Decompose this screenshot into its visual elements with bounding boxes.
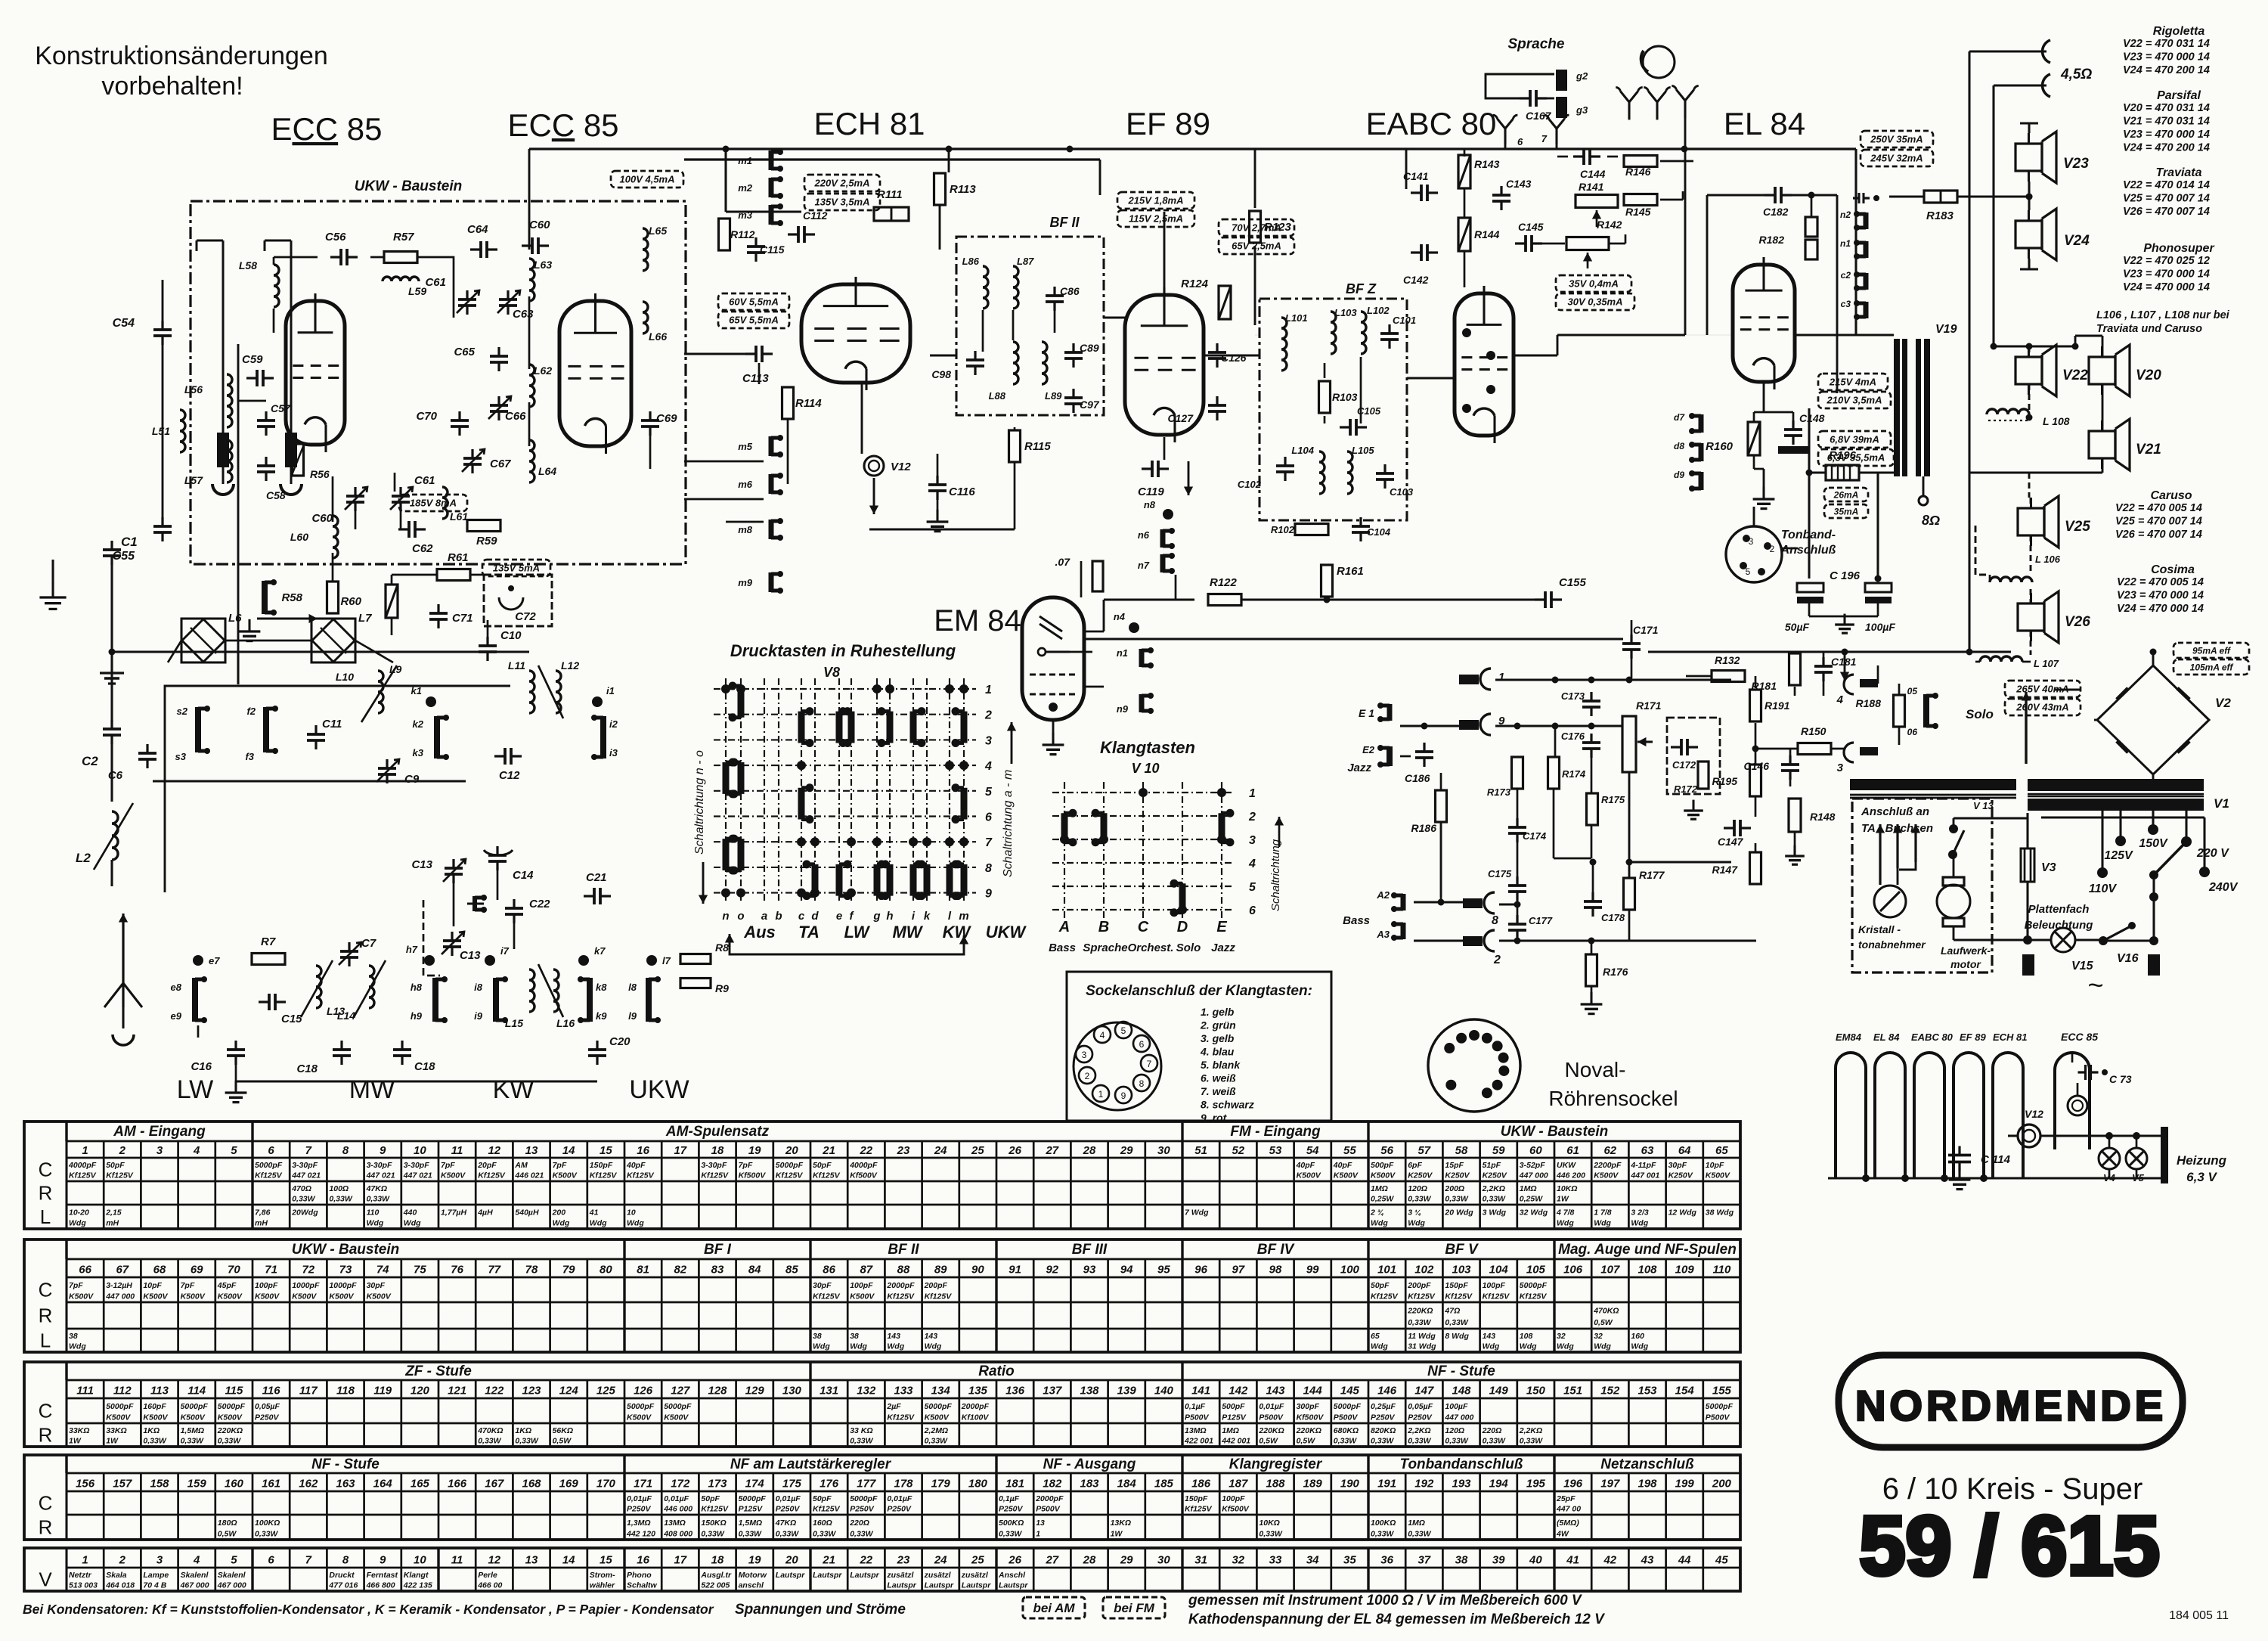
plug m9 (769, 572, 774, 592)
wire heater connects (2108, 1134, 2111, 1148)
svg-text:Sprache: Sprache (1083, 941, 1127, 954)
svg-text:184 005 11: 184 005 11 (2169, 1609, 2229, 1622)
svg-text:81: 81 (637, 1264, 649, 1277)
svg-text:1MΩ: 1MΩ (1222, 1426, 1239, 1435)
svg-text:0,33W: 0,33W (850, 1437, 873, 1446)
headphone circle (1643, 46, 1675, 78)
speaker V20 (2089, 357, 2115, 384)
svg-text:e7: e7 (209, 955, 220, 966)
speaker V26 (2018, 603, 2044, 631)
svg-text:0,33W: 0,33W (999, 1529, 1022, 1538)
resistor R102 (1295, 524, 1328, 535)
capacitor C89 (1064, 351, 1083, 354)
resistor R112 (719, 219, 730, 250)
voltage tap 125V (2115, 836, 2126, 846)
svg-text:NF - Stufe: NF - Stufe (311, 1456, 380, 1472)
svg-text:Lautspr: Lautspr (887, 1581, 916, 1590)
svg-text:23: 23 (897, 1144, 910, 1157)
capacitor C66 (490, 404, 508, 407)
svg-text:C11: C11 (322, 718, 342, 731)
svg-text:h8: h8 (411, 982, 423, 993)
svg-text:e8: e8 (171, 982, 182, 993)
svg-text:C176: C176 (1561, 731, 1585, 742)
svg-text:R144: R144 (1474, 228, 1500, 240)
output transformer V19 right bars (1916, 339, 1921, 476)
svg-text:L6: L6 (228, 612, 242, 625)
svg-text:102: 102 (1414, 1264, 1434, 1277)
svg-text:Wdg: Wdg (1371, 1342, 1388, 1351)
ground UKW (248, 619, 250, 631)
svg-text:C67: C67 (490, 458, 511, 470)
svg-text:5000pF: 5000pF (850, 1494, 878, 1503)
svg-text:0,33W: 0,33W (701, 1529, 724, 1538)
svg-text:C103: C103 (1390, 486, 1414, 498)
svg-text:L51: L51 (152, 425, 170, 437)
svg-text:C66: C66 (505, 410, 526, 423)
svg-text:C22: C22 (529, 898, 550, 910)
svg-text:Wdg: Wdg (813, 1342, 830, 1351)
svg-text:Kf125V: Kf125V (255, 1171, 283, 1180)
capacitor C70 (451, 419, 469, 422)
svg-text:C97: C97 (1080, 399, 1100, 411)
svg-text:mH: mH (255, 1219, 268, 1228)
coil L86 L87 (983, 266, 988, 309)
svg-text:522 005: 522 005 (701, 1581, 730, 1590)
svg-text:C7: C7 (361, 937, 376, 950)
svg-text:E 1: E 1 (1359, 707, 1374, 719)
svg-text:C1: C1 (121, 535, 138, 549)
svg-text:1MΩ: 1MΩ (1520, 1184, 1537, 1193)
svg-text:167: 167 (485, 1478, 504, 1491)
svg-text:c2: c2 (1841, 270, 1851, 281)
svg-text:wähler: wähler (590, 1581, 615, 1590)
svg-text:1W: 1W (106, 1437, 119, 1446)
wire jack1 line (1495, 679, 1731, 681)
plug switch in UKW (262, 581, 268, 614)
svg-text:3: 3 (1837, 762, 1844, 774)
jack A2 Bass (1401, 894, 1406, 910)
svg-text:C: C (39, 1400, 53, 1422)
svg-text:(5MΩ): (5MΩ) (1557, 1518, 1579, 1528)
svg-text:30V 0,35mA: 30V 0,35mA (1568, 296, 1623, 308)
svg-text:Kf125V: Kf125V (887, 1292, 915, 1301)
capacitor smoothing bar (2055, 689, 2081, 691)
svg-text:32: 32 (1232, 1553, 1244, 1566)
voltage box 26mA (1824, 488, 1868, 501)
svg-text:V22 = 470 025 12: V22 = 470 025 12 (2123, 255, 2210, 267)
svg-text:n1: n1 (1840, 238, 1851, 249)
svg-text:C115: C115 (760, 244, 785, 256)
svg-text:Kf125V: Kf125V (925, 1292, 953, 1301)
svg-text:L: L (40, 1205, 51, 1228)
svg-text:C21: C21 (586, 871, 607, 884)
svg-text:n7: n7 (1138, 560, 1150, 571)
svg-text:447 021: 447 021 (291, 1171, 321, 1180)
svg-text:30pF: 30pF (367, 1281, 386, 1290)
svg-text:Schaltrichtung a - m: Schaltrichtung a - m (1002, 770, 1015, 877)
svg-text:79: 79 (562, 1264, 575, 1277)
svg-text:UKW - Baustein: UKW - Baustein (355, 178, 463, 194)
svg-text:182: 182 (1043, 1478, 1062, 1491)
svg-text:V25: V25 (2065, 519, 2090, 535)
svg-text:184: 184 (1117, 1478, 1137, 1491)
svg-text:33KΩ: 33KΩ (106, 1426, 126, 1435)
svg-text:84: 84 (748, 1264, 761, 1277)
svg-text:L 107: L 107 (2034, 658, 2059, 669)
svg-text:35: 35 (1343, 1553, 1356, 1566)
wire R186 (1440, 773, 1442, 789)
svg-text:m: m (959, 910, 968, 923)
svg-text:74: 74 (376, 1264, 389, 1277)
svg-text:7pF: 7pF (739, 1161, 753, 1170)
svg-text:1,5MΩ: 1,5MΩ (739, 1518, 763, 1528)
wire misc long runs (528, 149, 531, 250)
svg-text:06: 06 (1907, 727, 1918, 737)
svg-text:R112: R112 (730, 228, 755, 240)
svg-text:71: 71 (265, 1264, 277, 1277)
svg-text:K500V: K500V (627, 1413, 652, 1422)
svg-text:R186: R186 (1411, 822, 1437, 834)
resistor R111 (874, 207, 909, 221)
plug o5 o6 (1923, 694, 1929, 727)
wire band section mid (153, 780, 466, 783)
svg-text:ECC 85: ECC 85 (2061, 1031, 2098, 1043)
svg-text:f2: f2 (246, 706, 256, 717)
svg-text:l9: l9 (628, 1010, 637, 1022)
svg-text:V19: V19 (1935, 323, 1957, 336)
svg-text:130: 130 (782, 1385, 802, 1397)
svg-text:50pF: 50pF (813, 1494, 832, 1503)
svg-text:30: 30 (1157, 1144, 1170, 1157)
svg-text:C70: C70 (416, 410, 437, 423)
svg-text:59 / 615: 59 / 615 (1859, 1500, 2160, 1593)
svg-text:1: 1 (82, 1553, 88, 1566)
svg-text:466 800: 466 800 (366, 1581, 395, 1590)
svg-text:25: 25 (971, 1144, 984, 1157)
svg-text:gemessen mit Instrument 10: gemessen mit Instrument 1000 Ω / V im Me… (1188, 1593, 1582, 1608)
svg-text:LW: LW (177, 1075, 213, 1104)
svg-text:K500V: K500V (218, 1413, 243, 1422)
svg-text:i2: i2 (609, 718, 618, 730)
svg-text:Wdg: Wdg (887, 1342, 904, 1351)
voltage box 30V 0,35mA (1556, 293, 1634, 310)
voltage box 185V 8mA (399, 495, 467, 511)
svg-text:L106 , L107 , L108 nur bei: L106 , L107 , L108 nur bei (2096, 309, 2230, 321)
svg-text:5: 5 (985, 786, 993, 799)
resistor R146 (1624, 156, 1657, 167)
svg-text:6: 6 (1139, 1039, 1145, 1050)
voltage box 6,3V 35,5mA (1818, 449, 1894, 466)
voltage box 65V 5,5mA (718, 312, 789, 328)
voltage box 210V 3,5mA (1818, 392, 1891, 408)
svg-text:Orchest.: Orchest. (1128, 941, 1174, 954)
TA switch (1953, 830, 1964, 855)
plug m3 (769, 205, 774, 225)
svg-text:5: 5 (1746, 566, 1751, 577)
svg-text:1000pF: 1000pF (292, 1281, 320, 1290)
svg-text:4: 4 (193, 1553, 200, 1566)
svg-text:V22 = 470 005 14: V22 = 470 005 14 (2117, 576, 2204, 588)
svg-text:R: R (39, 1182, 53, 1205)
svg-text:L2: L2 (76, 851, 91, 865)
wire speakers network (2028, 346, 2031, 357)
svg-text:3-30pF: 3-30pF (367, 1161, 392, 1170)
svg-text:K500V: K500V (664, 1413, 689, 1422)
wire C1-C2 (110, 562, 113, 723)
svg-text:73: 73 (339, 1264, 352, 1277)
svg-text:9: 9 (380, 1144, 386, 1157)
svg-text:e: e (836, 910, 842, 923)
transformer left bars (1850, 779, 2016, 790)
resistor R113 (934, 173, 946, 205)
indicator V12 heater (2018, 1125, 2040, 1147)
voltage box 6,8V 39mA (1818, 431, 1891, 448)
svg-text:P250V: P250V (255, 1413, 280, 1422)
plug m-left (217, 433, 229, 467)
svg-text:100pF: 100pF (850, 1281, 873, 1290)
switch k1 k2 k3 (426, 696, 436, 707)
svg-text:34: 34 (1306, 1553, 1319, 1566)
capacitor C9 trim (378, 767, 396, 770)
svg-text:Lautspr: Lautspr (999, 1581, 1028, 1590)
svg-text:V 13: V 13 (1973, 800, 1994, 811)
svg-text:Solo: Solo (1966, 707, 1994, 721)
svg-text:149: 149 (1489, 1385, 1509, 1397)
svg-text:220KΩ: 220KΩ (217, 1426, 243, 1435)
svg-text:ECC 85: ECC 85 (507, 107, 618, 143)
svg-text:C173: C173 (1561, 690, 1585, 702)
capacitor C60 C61 variable (346, 495, 364, 498)
svg-text:L89: L89 (1045, 390, 1062, 402)
svg-text:33KΩ: 33KΩ (69, 1426, 89, 1435)
svg-text:Anschluß: Anschluß (1780, 544, 1836, 557)
TA arrows (1879, 824, 1881, 885)
svg-text:0,33W: 0,33W (850, 1529, 873, 1538)
capacitor C62 (407, 521, 411, 538)
svg-text:6,8V 39mA: 6,8V 39mA (1830, 434, 1879, 445)
svg-text:125: 125 (596, 1385, 616, 1397)
wire antenna drop (1684, 112, 1687, 335)
wire BFZ internals (1324, 363, 1326, 378)
svg-text:Wdg: Wdg (1483, 1342, 1500, 1351)
svg-text:c: c (798, 910, 805, 923)
svg-text:K500V: K500V (292, 1292, 317, 1301)
coil L64 (529, 440, 534, 482)
capacitor C114 heater (1948, 1154, 1971, 1157)
svg-text:Wdg: Wdg (1557, 1342, 1574, 1351)
svg-text:32: 32 (1557, 1332, 1566, 1341)
capacitor C181 (1814, 665, 1833, 668)
cap .07 above EM84 (1092, 561, 1103, 591)
capacitor C176 (1582, 741, 1600, 744)
svg-text:8: 8 (1139, 1078, 1145, 1089)
svg-text:Wdg: Wdg (627, 1219, 644, 1228)
svg-text:0,05µF: 0,05µF (255, 1402, 280, 1411)
potentiometer R141 (1576, 195, 1618, 208)
lamp V4 (2099, 1148, 2120, 1169)
capacitor C112 (797, 226, 800, 243)
svg-text:151: 151 (1563, 1385, 1582, 1397)
svg-text:L88: L88 (989, 390, 1006, 402)
svg-text:P125V: P125V (1222, 1413, 1247, 1422)
wire bass lines (1414, 901, 1463, 904)
svg-text:V3: V3 (2041, 861, 2056, 874)
resistor R123 (1250, 211, 1261, 243)
svg-text:C2: C2 (82, 754, 98, 768)
svg-text:K500V: K500V (69, 1292, 94, 1301)
svg-text:1: 1 (1036, 1529, 1040, 1538)
svg-text:220Ω: 220Ω (849, 1518, 869, 1528)
wire ECH81 to BFII (930, 355, 956, 357)
svg-text:0,33W: 0,33W (1445, 1437, 1468, 1446)
resistor R103 (1319, 381, 1331, 413)
svg-text:B: B (1098, 919, 1109, 935)
svg-text:BF IV: BF IV (1257, 1242, 1295, 1258)
svg-text:Röhrensockel: Röhrensockel (1548, 1087, 1678, 1110)
svg-text:9: 9 (380, 1553, 386, 1566)
svg-text:Kf125V: Kf125V (813, 1292, 841, 1301)
svg-text:Netztr: Netztr (69, 1571, 92, 1580)
coil L108 (1987, 409, 2029, 414)
svg-text:C69: C69 (656, 412, 677, 425)
capacitor C182 (1774, 187, 1777, 203)
svg-text:185: 185 (1154, 1478, 1174, 1491)
svg-text:8: 8 (1492, 914, 1498, 927)
capacitor C144 (1582, 148, 1585, 165)
speaker V24 (2015, 221, 2042, 248)
svg-text:C14: C14 (513, 869, 534, 882)
plug m6 (769, 474, 774, 494)
resistor R56 (293, 444, 304, 476)
wire R176 (1591, 941, 1593, 954)
svg-text:C9: C9 (404, 773, 420, 786)
wire R61 line (392, 574, 437, 576)
svg-text:300pF: 300pF (1297, 1402, 1320, 1411)
svg-text:Wdg: Wdg (850, 1342, 867, 1351)
svg-text:100pF: 100pF (1483, 1281, 1506, 1290)
svg-text:0,33W: 0,33W (776, 1529, 799, 1538)
antenna symbol bottom-left (122, 914, 124, 1007)
arrow EF89 k (1188, 461, 1190, 495)
svg-text:a: a (761, 910, 767, 923)
capacitor C86 (1046, 294, 1064, 297)
svg-text:477 016: 477 016 (328, 1581, 358, 1590)
svg-text:86: 86 (823, 1264, 835, 1277)
svg-text:L10: L10 (336, 671, 354, 683)
mains plug right (2148, 954, 2160, 976)
svg-text:198: 198 (1637, 1478, 1657, 1491)
svg-text:30pF: 30pF (1668, 1161, 1687, 1170)
capacitor C61 trim (458, 298, 476, 301)
svg-text:bei AM: bei AM (1033, 1601, 1075, 1615)
svg-text:53: 53 (1269, 1144, 1282, 1157)
svg-text:i7: i7 (500, 945, 510, 957)
svg-text:R56: R56 (310, 468, 330, 480)
capacitor C174 (1508, 826, 1526, 829)
svg-text:L7: L7 (358, 612, 372, 625)
svg-text:94: 94 (1120, 1264, 1133, 1277)
svg-text:195: 195 (1526, 1478, 1546, 1491)
svg-text:Bass: Bass (1343, 914, 1370, 927)
svg-text:P250V: P250V (627, 1505, 652, 1514)
svg-text:K500V: K500V (1297, 1171, 1321, 1180)
svg-text:2µF: 2µF (886, 1402, 901, 1411)
speaker V21 (2089, 431, 2115, 458)
svg-text:C: C (39, 1279, 53, 1301)
svg-text:Wdg: Wdg (69, 1219, 86, 1228)
svg-text:C61: C61 (425, 276, 446, 289)
svg-text:145: 145 (1340, 1385, 1360, 1397)
BF Z dashed box (1259, 299, 1407, 520)
svg-text:V24 = 470 000 14: V24 = 470 000 14 (2123, 281, 2210, 293)
EABC80 pin dots (1462, 328, 1471, 337)
svg-text:3: 3 (1749, 536, 1754, 547)
svg-text:58: 58 (1455, 1144, 1468, 1157)
svg-text:L57: L57 (184, 474, 203, 486)
capacitor C71 (429, 612, 448, 615)
svg-text:5000pF: 5000pF (181, 1402, 209, 1411)
svg-text:7pF: 7pF (181, 1281, 195, 1290)
svg-text:Ferntast: Ferntast (367, 1571, 398, 1580)
jack 1 (1459, 675, 1479, 684)
svg-text:P500V: P500V (1185, 1413, 1210, 1422)
coil L7 diamond (311, 619, 355, 662)
svg-text:100pF: 100pF (255, 1281, 278, 1290)
svg-text:V23 = 470 000 14: V23 = 470 000 14 (2123, 268, 2210, 281)
svg-text:42: 42 (1603, 1553, 1616, 1566)
svg-text:K500V: K500V (143, 1292, 168, 1301)
svg-text:m2: m2 (738, 182, 753, 194)
svg-text:Wdg: Wdg (553, 1219, 570, 1228)
svg-text:470Ω: 470Ω (291, 1184, 311, 1193)
plug arc left (212, 484, 234, 495)
resistor R181 (1789, 653, 1801, 685)
svg-text:175: 175 (782, 1478, 802, 1491)
svg-text:Kf125V: Kf125V (1445, 1292, 1473, 1301)
svg-text:0,1µF: 0,1µF (1185, 1402, 1206, 1411)
svg-text:540µH: 540µH (515, 1208, 539, 1217)
svg-text:h9: h9 (411, 1010, 423, 1022)
svg-text:C186: C186 (1405, 772, 1430, 784)
svg-text:820KΩ: 820KΩ (1371, 1426, 1396, 1435)
svg-text:82: 82 (674, 1264, 686, 1277)
voltage box 245V 32mA (1861, 150, 1933, 166)
svg-text:85: 85 (785, 1264, 798, 1277)
wire C196 (1808, 603, 1811, 616)
svg-text:EL 84: EL 84 (1873, 1031, 1900, 1043)
svg-text:4,5Ω: 4,5Ω (2060, 67, 2092, 82)
svg-text:P500V: P500V (1036, 1505, 1061, 1514)
BF II dashed box (956, 237, 1104, 415)
svg-text:4000pF: 4000pF (849, 1161, 878, 1170)
capacitor C16 (227, 1048, 245, 1051)
svg-text:Plattenfach: Plattenfach (2028, 903, 2090, 916)
svg-text:C: C (39, 1492, 53, 1515)
svg-text:vorbehalten!: vorbehalten! (101, 72, 243, 101)
svg-text:K500V: K500V (850, 1292, 875, 1301)
wire ECH81 area (726, 211, 801, 213)
wire R115 (1014, 427, 1016, 430)
svg-text:KW: KW (493, 1075, 534, 1104)
svg-text:143: 143 (887, 1332, 900, 1341)
svg-text:20: 20 (785, 1144, 798, 1157)
svg-text:L11: L11 (508, 659, 525, 672)
power transformer V1 secondary bar (2028, 799, 2204, 811)
svg-text:R61: R61 (448, 551, 469, 564)
svg-text:k3: k3 (413, 747, 424, 758)
svg-text:KW: KW (943, 923, 972, 941)
svg-text:40: 40 (1529, 1553, 1542, 1566)
